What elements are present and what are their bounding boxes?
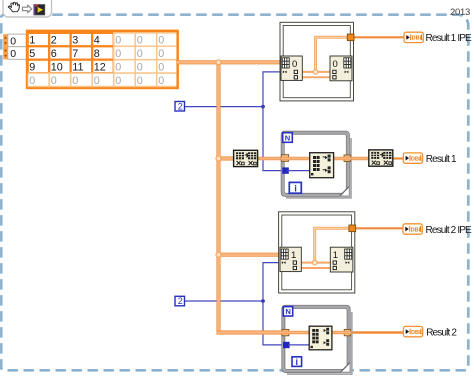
svg-text:0: 0 — [158, 35, 164, 47]
svg-text:12: 12 — [94, 62, 106, 74]
svg-text:Result 2: Result 2 — [426, 327, 457, 338]
svg-text:8: 8 — [94, 48, 100, 60]
svg-text:Result 1: Result 1 — [426, 154, 457, 165]
svg-text:7: 7 — [72, 48, 78, 60]
svg-text:0: 0 — [51, 75, 57, 87]
svg-text:0: 0 — [94, 75, 100, 87]
svg-text:2: 2 — [178, 296, 183, 306]
svg-text:1: 1 — [291, 250, 296, 261]
svg-text:3: 3 — [72, 35, 78, 47]
svg-text:6: 6 — [51, 48, 57, 60]
svg-text:Result 1 IPE: Result 1 IPE — [426, 33, 473, 44]
svg-text:0: 0 — [158, 62, 164, 74]
svg-text:10: 10 — [51, 62, 63, 74]
svg-text:N: N — [285, 133, 290, 142]
svg-text:0: 0 — [10, 35, 16, 47]
svg-text:0: 0 — [115, 62, 121, 74]
svg-text:0: 0 — [137, 75, 143, 87]
svg-text:11: 11 — [72, 62, 83, 74]
svg-text:0: 0 — [72, 75, 78, 87]
svg-text:0: 0 — [115, 35, 121, 47]
svg-text:9: 9 — [29, 62, 35, 74]
svg-text:0: 0 — [137, 62, 143, 74]
svg-text:0: 0 — [137, 35, 143, 47]
svg-text:2: 2 — [178, 101, 183, 111]
svg-text:i: i — [296, 357, 299, 367]
svg-text:0: 0 — [158, 75, 164, 87]
svg-text:1: 1 — [29, 35, 35, 47]
svg-text:0: 0 — [10, 48, 16, 60]
svg-text:2: 2 — [51, 35, 57, 47]
svg-text:0: 0 — [29, 75, 35, 87]
svg-text:4: 4 — [94, 35, 100, 47]
svg-text:i: i — [294, 183, 297, 194]
svg-text:0: 0 — [292, 59, 297, 70]
svg-text:N: N — [285, 307, 290, 316]
svg-text:Result 2 IPE: Result 2 IPE — [426, 225, 473, 236]
svg-text:5: 5 — [29, 48, 35, 60]
svg-text:0: 0 — [115, 75, 121, 87]
svg-text:1: 1 — [333, 250, 338, 261]
svg-text:0: 0 — [137, 48, 143, 60]
svg-text:0: 0 — [333, 59, 338, 70]
svg-text:0: 0 — [158, 48, 164, 60]
svg-text:0: 0 — [115, 48, 121, 60]
svg-text:2013: 2013 — [450, 7, 470, 18]
